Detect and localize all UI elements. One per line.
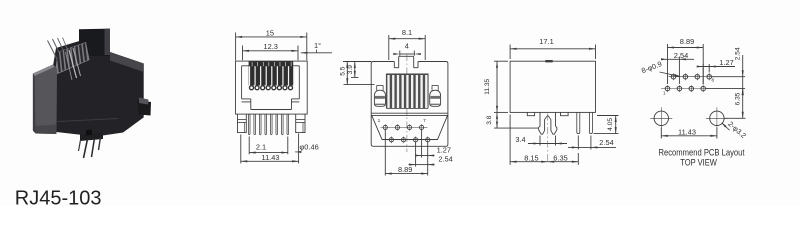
svg-text:1°: 1° bbox=[314, 41, 321, 50]
svg-text:7: 7 bbox=[423, 118, 426, 124]
svg-text:2.54: 2.54 bbox=[674, 51, 688, 60]
svg-text:4.05: 4.05 bbox=[607, 118, 614, 131]
svg-text:3.4: 3.4 bbox=[515, 135, 525, 144]
svg-text:3.8: 3.8 bbox=[486, 115, 493, 124]
svg-text:11.43: 11.43 bbox=[262, 153, 280, 162]
svg-text:8.1: 8.1 bbox=[402, 28, 412, 37]
svg-text:17.1: 17.1 bbox=[539, 37, 553, 46]
svg-text:1: 1 bbox=[378, 118, 381, 124]
svg-text:8.15: 8.15 bbox=[524, 153, 538, 162]
svg-text:8: 8 bbox=[712, 78, 715, 83]
svg-text:2.54: 2.54 bbox=[734, 47, 741, 60]
svg-text:11.35: 11.35 bbox=[484, 78, 491, 94]
svg-text:8.89: 8.89 bbox=[680, 37, 694, 46]
svg-text:TOP VIEW: TOP VIEW bbox=[680, 158, 717, 168]
svg-text:11.43: 11.43 bbox=[678, 128, 696, 137]
svg-text:2-φ3.2: 2-φ3.2 bbox=[726, 119, 748, 140]
svg-text:1: 1 bbox=[663, 91, 666, 96]
svg-text:12.3: 12.3 bbox=[264, 42, 278, 51]
svg-text:6.35: 6.35 bbox=[735, 92, 742, 105]
svg-text:8.89: 8.89 bbox=[398, 165, 412, 174]
svg-text:1.27: 1.27 bbox=[437, 145, 451, 154]
svg-text:3.9: 3.9 bbox=[347, 65, 354, 74]
svg-text:15: 15 bbox=[266, 29, 274, 38]
svg-text:8-φ0.9: 8-φ0.9 bbox=[640, 59, 663, 75]
svg-text:φ0.46: φ0.46 bbox=[300, 142, 319, 151]
svg-text:1.27: 1.27 bbox=[719, 58, 733, 67]
svg-text:4: 4 bbox=[405, 42, 409, 51]
svg-text:2.54: 2.54 bbox=[438, 155, 452, 164]
svg-text:RJ45-103: RJ45-103 bbox=[15, 187, 102, 206]
svg-text:5.5: 5.5 bbox=[339, 66, 346, 75]
svg-text:2.1: 2.1 bbox=[256, 142, 266, 151]
svg-text:6.35: 6.35 bbox=[553, 153, 567, 162]
svg-text:2.54: 2.54 bbox=[599, 138, 613, 147]
